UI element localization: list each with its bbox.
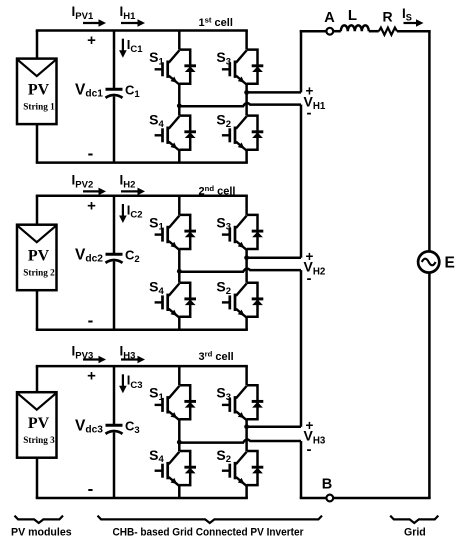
wire: node A wire from V_H1+ riser to node A xyxy=(300,30,327,33)
wire: cell 3 DC-link bus upper segment xyxy=(113,366,116,425)
cell 2: PV string + DC link + H-bridge group xyxy=(17,173,326,331)
wire: cell 2 right leg bottom stub xyxy=(245,317,248,330)
wire: grid right vertical lower segment xyxy=(428,273,431,498)
label I_C1 with down arrow xyxy=(119,37,143,58)
cell 3: PV string + DC link + H-bridge group xyxy=(17,344,326,499)
wire: cell 1 left rail lower segment (PV- lead) xyxy=(36,124,39,163)
wire: cell 1 left leg bottom stub xyxy=(178,150,181,163)
svg-text:String 1: String 1 xyxy=(23,101,55,111)
cell 1: PV string + DC link + H-bridge group xyxy=(17,4,326,163)
label I_C3 with down arrow xyxy=(119,373,142,394)
junction dot: cell 2 left leg midpoint node xyxy=(177,269,182,274)
wire: cell 1 right leg top stub xyxy=(245,31,248,50)
svg-text:PV: PV xyxy=(28,248,50,265)
wire: cell 2 bottom rail (DC bus -) xyxy=(36,328,248,331)
junction dot: cell 1 right leg / V_H1+ node xyxy=(244,90,249,95)
label I_C2 with down arrow xyxy=(119,202,142,223)
junction dot: cell 3 left leg midpoint node xyxy=(177,440,182,445)
resistor R xyxy=(379,28,397,35)
wire: cell 2 right leg top stub xyxy=(245,196,248,215)
label I_PV3 with arrow xyxy=(72,344,107,364)
wire: cell 3 bottom rail (DC bus -) xyxy=(36,497,248,500)
wire: inductor to resistor xyxy=(369,30,379,33)
svg-text:Grid: Grid xyxy=(404,527,426,539)
wire: cell 3 right leg top stub xyxy=(245,366,248,385)
junction dot: cell 2 right leg / V_H2+ node xyxy=(244,255,249,260)
label I_H2 with arrow xyxy=(120,173,146,196)
wire: cell 3 left leg middle segment xyxy=(178,419,181,451)
svg-text:+: + xyxy=(87,368,96,385)
node A (open terminal) xyxy=(326,28,333,35)
wire: cell 2 top rail (DC bus +) xyxy=(36,195,248,198)
wire: cell 2 left leg bottom stub xyxy=(178,317,181,330)
switch S3 (cell 2): IGBT with anti-parallel diode xyxy=(222,215,263,250)
capacitor C3 xyxy=(106,425,123,434)
wire: cell 1 V_H1- output from left leg midpoint with hop over right leg xyxy=(179,103,301,106)
wire: grid right vertical upper segment xyxy=(428,31,431,251)
wire: cell 3 left rail lower segment (PV- lead) xyxy=(36,458,39,498)
switch S2 (cell 3): IGBT with anti-parallel diode xyxy=(222,451,263,486)
wire: cell 3 right leg bottom stub xyxy=(245,485,248,498)
wire: cell 1 DC-link bus lower segment xyxy=(113,97,116,163)
svg-text:PV modules: PV modules xyxy=(11,527,72,539)
wire: cell 2 right leg middle segment xyxy=(245,249,248,283)
switch S1 (cell 1): IGBT with anti-parallel diode xyxy=(155,50,196,85)
AC grid source E xyxy=(418,251,439,272)
node B (open terminal) xyxy=(326,495,333,502)
inductor L xyxy=(341,25,369,31)
PV module: PV String 3 xyxy=(17,392,57,458)
switch S1 (cell 2): IGBT with anti-parallel diode xyxy=(155,215,196,250)
label I_s with arrow xyxy=(402,6,424,27)
switch S1 (cell 3): IGBT with anti-parallel diode xyxy=(155,385,196,420)
capacitor C2 xyxy=(106,254,123,263)
wire: cell 1 top rail (DC bus +) xyxy=(36,29,248,32)
switch S2 (cell 1): IGBT with anti-parallel diode xyxy=(222,116,263,151)
junction dot: cell 3 right leg / V_H3+ node xyxy=(244,424,249,429)
svg-text:PV: PV xyxy=(28,82,50,99)
wire: cell 1 left rail upper segment (PV+ lead) xyxy=(36,31,39,59)
wire: resistor to grid corner xyxy=(397,30,431,33)
junction dot: cell 1 left leg midpoint node xyxy=(177,103,182,108)
wire: cell 3 left rail upper segment (PV+ lead) xyxy=(36,366,39,392)
svg-text:CHB- based Grid Connected PV I: CHB- based Grid Connected PV Inverter xyxy=(113,527,304,539)
switch S4 (cell 3): IGBT with anti-parallel diode xyxy=(155,451,196,486)
wire: V_H3- vertical down to node B wire xyxy=(300,441,303,498)
wire: cell 1 DC-link bus upper segment xyxy=(113,31,116,89)
svg-text:-: - xyxy=(88,311,94,330)
svg-text:-: - xyxy=(88,480,94,499)
svg-text:E: E xyxy=(445,255,455,272)
wire: V_H2- vertical down to cell 3 V_H3+ wire xyxy=(300,270,303,427)
wire: cell 2 DC-link bus upper segment xyxy=(113,196,116,254)
wire: cell 1 left leg middle segment xyxy=(178,84,181,116)
wire: cell 2 V_H2+ output from right leg midpoint xyxy=(247,256,301,259)
svg-text:-: - xyxy=(307,104,312,121)
label I_PV1 with arrow xyxy=(72,4,107,27)
switch S3 (cell 1): IGBT with anti-parallel diode xyxy=(222,50,263,85)
brace: PV modules section xyxy=(15,516,64,523)
svg-text:PV: PV xyxy=(28,415,50,432)
svg-text:A: A xyxy=(324,10,335,26)
wire: cell 2 V_H2- output from left leg midpoint with hop over right leg xyxy=(179,269,301,272)
wire: node B wire from V_H3- riser to grid xyxy=(300,497,327,500)
wire: V_H1+ vertical up to node A wire xyxy=(300,30,303,92)
brace: Grid section xyxy=(390,516,438,523)
svg-text:L: L xyxy=(348,7,357,24)
label I_H1 with arrow xyxy=(120,4,146,27)
wire: cell 1 left leg top stub xyxy=(178,31,181,50)
svg-text:+: + xyxy=(87,197,96,214)
PV module: PV String 2 xyxy=(17,225,57,291)
wire: cell 3 right leg middle segment xyxy=(245,419,248,451)
wire: cell 2 left leg middle segment xyxy=(178,249,181,283)
wire: cell 1 right leg bottom stub xyxy=(245,150,248,163)
wire: cell 1 right leg middle segment xyxy=(245,84,248,116)
wire: cell 3 V_H3- output from left leg midpoint with hop over right leg xyxy=(179,439,301,442)
brace: CHB inverter section xyxy=(98,516,323,523)
svg-text:+: + xyxy=(87,32,96,49)
capacitor C1 xyxy=(106,89,123,98)
switch S4 (cell 2): IGBT with anti-parallel diode xyxy=(155,283,196,318)
svg-text:String 3: String 3 xyxy=(23,435,55,445)
wire: node A to inductor xyxy=(333,30,341,33)
wire: cell 1 bottom rail (DC bus -) xyxy=(36,161,248,164)
svg-text:1st cell: 1st cell xyxy=(199,16,233,30)
wire: V_H1- vertical down to cell 2 V_H2+ wire xyxy=(300,105,303,258)
wire: cell 3 V_H3+ output from right leg midpoint xyxy=(247,425,301,428)
wire: cell 2 left rail upper segment (PV+ lead) xyxy=(36,196,39,225)
svg-text:-: - xyxy=(307,441,312,458)
wire: cell 3 top rail (DC bus +) xyxy=(36,365,248,368)
svg-text:-: - xyxy=(88,144,94,163)
svg-text:String 2: String 2 xyxy=(23,268,55,278)
switch S3 (cell 3): IGBT with anti-parallel diode xyxy=(222,385,263,420)
switch S2 (cell 2): IGBT with anti-parallel diode xyxy=(222,283,263,318)
label I_H3 with arrow xyxy=(120,344,146,364)
wire: cell 2 DC-link bus lower segment xyxy=(113,262,116,330)
wire: cell 2 left leg top stub xyxy=(178,196,181,215)
svg-text:3rd cell: 3rd cell xyxy=(199,350,234,364)
label I_PV2 with arrow xyxy=(72,173,107,196)
wire: cell 3 left leg top stub xyxy=(178,366,181,385)
wire: cell 2 left rail lower segment (PV- lead) xyxy=(36,290,39,330)
PV module: PV String 1 xyxy=(17,59,57,125)
wire: cell 1 V_H1+ output from right leg midpoint xyxy=(247,91,301,94)
svg-text:B: B xyxy=(322,477,332,493)
svg-text:-: - xyxy=(307,270,312,287)
svg-text:R: R xyxy=(382,9,392,25)
wire: cell 3 left leg bottom stub xyxy=(178,485,181,498)
switch S4 (cell 1): IGBT with anti-parallel diode xyxy=(155,116,196,151)
wire: cell 3 DC-link bus lower segment xyxy=(113,433,116,499)
